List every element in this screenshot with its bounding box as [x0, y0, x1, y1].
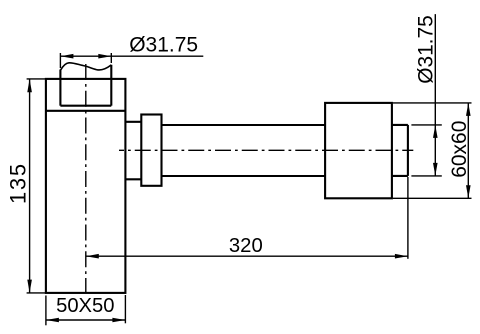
arrow up: [433, 125, 438, 138]
outlet stub between body and nut: [125, 121, 141, 123]
arrow down: [466, 185, 471, 198]
svg-text:Ø31.75: Ø31.75: [414, 15, 437, 84]
arrow down: [433, 163, 438, 176]
vertical centerline of body: [85, 64, 87, 293]
wall block 60x60: [325, 103, 392, 198]
arrow up: [27, 79, 32, 92]
dimension top diameter 31.75: extension lines: [59, 53, 61, 68]
dimension 135: extension lines: [27, 78, 46, 80]
dimension right diameter 31.75: leader/dimension line: [434, 14, 436, 176]
dimension 320: right extension line: [407, 177, 409, 259]
arrow down: [27, 280, 32, 293]
inlet pipe break (wavy) line: [60, 63, 111, 71]
arrow left: [86, 254, 99, 259]
dimension 50X50: extension lines: [45, 296, 47, 326]
dimension top diameter 31.75: dimension + leader line: [60, 55, 203, 57]
compression nut (flange): [141, 115, 161, 186]
arrow right: [98, 54, 111, 59]
dimension 50X50: dimension line: [46, 319, 126, 321]
svg-text:320: 320: [229, 235, 263, 257]
arrow left: [60, 54, 73, 59]
body cap divider line: [46, 110, 126, 112]
horizontal pipe top edge: [162, 124, 326, 126]
svg-text:Ø31.75: Ø31.75: [129, 33, 198, 56]
dimension 60x60: dimension line: [467, 103, 469, 198]
inlet pipe left edge: [59, 70, 61, 106]
inlet pipe right edge: [110, 65, 112, 106]
inlet pipe bottom edge: [60, 105, 111, 107]
right outlet stub: [392, 124, 408, 126]
trap body outline: [46, 79, 126, 293]
arrow left: [46, 318, 59, 323]
horizontal centerline of pipe: [119, 149, 413, 151]
arrow right: [112, 318, 125, 323]
svg-text:135: 135: [6, 162, 31, 204]
dimension 320: dimension line: [86, 255, 408, 257]
svg-text:60x60: 60x60: [448, 121, 471, 178]
dimension right diameter 31.75: extension lines: [411, 124, 441, 126]
dimension 60x60: extension lines: [393, 102, 472, 104]
dimension 135: dimension line: [29, 79, 31, 293]
arrow right: [395, 254, 408, 259]
horizontal pipe bottom edge: [162, 175, 326, 177]
svg-text:50X50: 50X50: [56, 295, 114, 317]
arrow up: [466, 103, 471, 116]
